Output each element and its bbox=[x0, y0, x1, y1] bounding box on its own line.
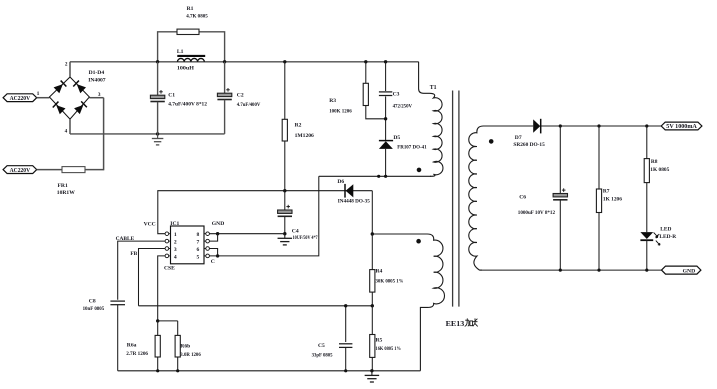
LED indicator LED-R bbox=[640, 226, 676, 245]
resistor R6b bbox=[175, 321, 201, 371]
svg-text:R8: R8 bbox=[651, 159, 658, 165]
transformer T1 secondary winding bbox=[469, 126, 533, 270]
svg-text:6: 6 bbox=[197, 247, 200, 253]
resistor R6a bbox=[126, 321, 160, 371]
svg-text:LED: LED bbox=[660, 226, 671, 232]
svg-text:D6: D6 bbox=[337, 179, 344, 185]
wire pin2 CABLE net bbox=[116, 236, 166, 300]
svg-text:5: 5 bbox=[197, 254, 200, 260]
label transformer EE13 jiachang bbox=[446, 318, 478, 328]
svg-text:C5: C5 bbox=[318, 343, 325, 349]
wire J2 to FR1 bbox=[37, 169, 62, 171]
wire VCC supply line (D6 cathode to IC) bbox=[158, 191, 372, 234]
svg-text:1: 1 bbox=[37, 91, 40, 97]
node C4-GND junction bbox=[283, 232, 286, 235]
transformer T1 core bbox=[453, 91, 459, 307]
svg-text:10UF/50V 4*7: 10UF/50V 4*7 bbox=[293, 235, 318, 241]
wire pin5 C net to primary corner bbox=[209, 176, 318, 256]
svg-text:CSE: CSE bbox=[164, 265, 175, 271]
svg-text:SR260 DO-15: SR260 DO-15 bbox=[513, 142, 545, 148]
wire LED to gnd rail bbox=[646, 240, 648, 270]
svg-text:3: 3 bbox=[98, 92, 101, 98]
resistor R5 bbox=[370, 306, 401, 371]
svg-text:5V 1000mA: 5V 1000mA bbox=[666, 123, 697, 130]
resistor R7 bbox=[596, 126, 622, 270]
svg-text:T1: T1 bbox=[430, 85, 437, 91]
wire pin3 FB net bbox=[130, 249, 165, 306]
node D5 cathode junction a bbox=[377, 175, 380, 178]
diode D3 (bridge bottom-left) bbox=[53, 102, 66, 115]
node rail ground junction bbox=[370, 369, 373, 372]
svg-text:472/250V: 472/250V bbox=[393, 103, 412, 109]
node R4-R5-FB junction bbox=[371, 304, 374, 307]
wire pin6 to pin5 bbox=[209, 249, 217, 256]
svg-text:C3: C3 bbox=[393, 91, 400, 97]
svg-text:1M1206: 1M1206 bbox=[295, 133, 314, 139]
svg-text:2: 2 bbox=[65, 61, 68, 67]
wire pin7 to pin8 bbox=[209, 234, 217, 241]
svg-text:30K 0805 1%: 30K 0805 1% bbox=[376, 279, 404, 285]
svg-text:GND: GND bbox=[683, 268, 696, 274]
svg-text:10nF 0805: 10nF 0805 bbox=[83, 306, 105, 312]
node primary ground junction bbox=[156, 132, 159, 135]
ground at C4 bbox=[278, 234, 293, 245]
capacitor C3 bbox=[379, 62, 412, 140]
svg-text:7: 7 bbox=[197, 240, 200, 246]
input connector J2 AC220V bbox=[3, 166, 37, 174]
node 5V-R8 bbox=[645, 124, 648, 127]
wire secondary ground rail bbox=[480, 269, 662, 271]
wire R1 bypass loop bbox=[158, 32, 225, 62]
svg-text:4.7uF/400V 8*12: 4.7uF/400V 8*12 bbox=[168, 102, 207, 108]
node rail-R2 bbox=[283, 60, 286, 63]
node primary phase dot bbox=[417, 168, 422, 173]
diode D2 (bridge top-right) bbox=[73, 81, 86, 94]
svg-text:R7: R7 bbox=[603, 189, 610, 195]
node R3-C3 junction bbox=[384, 117, 387, 120]
svg-text:AC220V: AC220V bbox=[10, 95, 31, 102]
capacitor C6 bbox=[518, 126, 568, 270]
capacitor C2 bbox=[217, 62, 260, 134]
wire FB feedback line bbox=[139, 305, 373, 307]
node gnd-C6 bbox=[559, 269, 562, 272]
svg-text:2.7R 1206: 2.7R 1206 bbox=[126, 351, 148, 357]
svg-text:LED-R: LED-R bbox=[659, 234, 676, 240]
node C5-FB junction bbox=[344, 304, 347, 307]
inductor L1 bbox=[177, 49, 205, 71]
resistor FR1 bbox=[57, 167, 85, 196]
ground primary (at C1) bbox=[152, 134, 164, 145]
ground at bottom rail bbox=[365, 371, 380, 382]
node R2-C4-VCC junction bbox=[283, 189, 286, 192]
node 5V-R7 bbox=[597, 124, 600, 127]
input connector J1 AC220V bbox=[3, 91, 40, 102]
node CSE-R6a-R6b junction bbox=[156, 319, 159, 322]
node R6a bottom bbox=[156, 369, 159, 372]
node rail-C3 bbox=[384, 60, 387, 63]
node pin8-pin7 junction bbox=[216, 232, 219, 235]
resistor R4 bbox=[370, 234, 404, 306]
svg-text:1: 1 bbox=[174, 232, 177, 238]
wire primary bottom to corner bbox=[319, 175, 431, 177]
diode D4 (bridge bottom-right) bbox=[74, 101, 87, 114]
node C5 bottom bbox=[344, 369, 347, 372]
svg-text:EE13: EE13 bbox=[446, 320, 465, 328]
svg-text:C1: C1 bbox=[168, 93, 175, 99]
svg-text:4.7uF/400V: 4.7uF/400V bbox=[237, 102, 260, 108]
output flag 5V 1000mA bbox=[661, 122, 702, 130]
svg-text:D7: D7 bbox=[515, 135, 522, 141]
svg-text:8: 8 bbox=[197, 232, 200, 238]
svg-text:1000uF 10V 8*12: 1000uF 10V 8*12 bbox=[518, 210, 555, 216]
svg-text:C6: C6 bbox=[519, 194, 526, 200]
svg-text:IC1: IC1 bbox=[170, 221, 179, 227]
svg-text:R1: R1 bbox=[187, 6, 194, 12]
svg-text:4.7K 0805: 4.7K 0805 bbox=[186, 14, 208, 20]
resistor R1 bbox=[177, 6, 208, 35]
capacitor C8 bbox=[83, 299, 125, 371]
svg-text:R3: R3 bbox=[329, 98, 336, 104]
IC1 pins bbox=[165, 232, 209, 260]
svg-text:16K 0805 1%: 16K 0805 1% bbox=[376, 346, 401, 352]
node secondary phase dot bbox=[489, 139, 494, 144]
node rail-L1 left bbox=[156, 60, 159, 63]
wire bridge minus output to bottom rail bbox=[65, 119, 70, 134]
wire pin8 GND net bbox=[209, 233, 284, 235]
svg-text:1K 0805: 1K 0805 bbox=[650, 167, 669, 173]
node pin5-pin6 junction bbox=[216, 254, 219, 257]
diode D1 (bridge top-left) bbox=[54, 81, 67, 94]
svg-text:D1-D4: D1-D4 bbox=[89, 70, 105, 76]
svg-text:C4: C4 bbox=[292, 229, 299, 235]
transformer T1 auxiliary winding bbox=[372, 234, 444, 371]
wire bridge plus output to top rail bbox=[65, 61, 70, 77]
svg-text:AC220V: AC220V bbox=[10, 167, 31, 174]
diode D6 bbox=[337, 179, 370, 205]
node R6b bottom bbox=[176, 369, 179, 372]
node 5V-C6 bbox=[559, 124, 562, 127]
resistor R8 bbox=[644, 126, 669, 232]
svg-text:R2: R2 bbox=[295, 123, 302, 129]
svg-text:C: C bbox=[211, 259, 215, 265]
svg-text:4: 4 bbox=[174, 254, 177, 260]
svg-text:10R1W: 10R1W bbox=[57, 190, 75, 196]
svg-text:R6b: R6b bbox=[180, 344, 190, 350]
node rail-L1 right bbox=[223, 60, 226, 63]
wire bottom rail (primary return) bbox=[70, 133, 225, 135]
node gnd-R7 bbox=[597, 269, 600, 272]
svg-text:R6a: R6a bbox=[127, 343, 137, 349]
wire J1 to bridge left corner bbox=[37, 97, 50, 99]
diode D5 bbox=[379, 135, 427, 176]
svg-text:100uH: 100uH bbox=[177, 66, 195, 72]
svg-text:IN4007: IN4007 bbox=[88, 78, 106, 84]
svg-text:R4: R4 bbox=[376, 269, 383, 275]
svg-text:C2: C2 bbox=[237, 93, 244, 99]
svg-text:FR1: FR1 bbox=[58, 183, 68, 189]
output flag GND bbox=[662, 266, 701, 274]
svg-text:IN4448 DO-35: IN4448 DO-35 bbox=[338, 199, 370, 205]
svg-text:D5: D5 bbox=[393, 135, 400, 141]
node aux-R4-D6 junction bbox=[371, 232, 374, 235]
svg-text:R5: R5 bbox=[376, 337, 383, 343]
resistor R3 bbox=[329, 62, 385, 119]
node rail-R3 bbox=[364, 60, 367, 63]
capacitor C4 bbox=[278, 191, 318, 242]
wire 5V output rail bbox=[541, 125, 662, 127]
bridge rectifier D1-D4 frame bbox=[49, 70, 105, 119]
svg-text:1K 1206: 1K 1206 bbox=[603, 197, 622, 203]
wire R6a-R6b top link bbox=[158, 320, 178, 322]
diode D7 bbox=[513, 119, 545, 148]
svg-text:2: 2 bbox=[174, 240, 177, 246]
wire pin4 CSE net bbox=[158, 256, 165, 321]
svg-text:VCC: VCC bbox=[144, 222, 156, 228]
svg-text:3.0R 1206: 3.0R 1206 bbox=[180, 352, 201, 358]
node D5 cathode junction b bbox=[384, 175, 387, 178]
wire FR1 to bridge pin 3 bbox=[85, 92, 104, 170]
svg-text:C8: C8 bbox=[89, 299, 96, 305]
wire D6 anode to aux winding node bbox=[371, 191, 373, 234]
svg-text:FB: FB bbox=[130, 251, 137, 257]
svg-text:4: 4 bbox=[65, 128, 68, 134]
svg-text:100K 1206: 100K 1206 bbox=[329, 109, 352, 115]
resistor R2 bbox=[282, 62, 314, 191]
svg-text:GND: GND bbox=[212, 221, 224, 227]
node gnd-LED bbox=[645, 269, 648, 272]
svg-text:3: 3 bbox=[174, 247, 177, 253]
transformer T1 primary winding bbox=[419, 62, 443, 177]
node auxiliary phase dot bbox=[416, 239, 421, 244]
capacitor C5 bbox=[312, 306, 353, 371]
svg-text:CABLE: CABLE bbox=[116, 236, 135, 242]
op-amp/controller IC1 body bbox=[144, 221, 225, 271]
svg-text:33pF 0805: 33pF 0805 bbox=[312, 352, 333, 358]
wire top rail (rectified +) bbox=[70, 61, 419, 63]
wire bottom signal rail bbox=[118, 370, 421, 372]
capacitor C1 bbox=[150, 62, 207, 134]
svg-text:FR107 DO-41: FR107 DO-41 bbox=[397, 144, 427, 150]
svg-text:L1: L1 bbox=[177, 49, 184, 55]
